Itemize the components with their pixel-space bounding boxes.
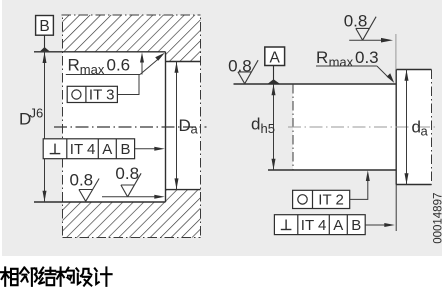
dimension Da arrow up bbox=[175, 62, 179, 73]
frame circularity IT3 bbox=[67, 86, 117, 102]
frame circularity IT2 bbox=[293, 190, 350, 208]
svg-text:IT 4: IT 4 bbox=[70, 141, 96, 158]
svg-text:a: a bbox=[191, 122, 199, 137]
shoulder face extension up (grey) bbox=[395, 34, 397, 70]
svg-text:0.6: 0.6 bbox=[107, 56, 131, 75]
housing outline break line bottom bbox=[63, 237, 201, 239]
svg-text:B: B bbox=[120, 141, 130, 158]
Rmax 0.6 underline bbox=[66, 74, 140, 76]
dimension D arrow down bbox=[43, 191, 47, 202]
housing bottom hatch bbox=[63, 190, 201, 238]
title 相邻结构设计 (drawn strokes) bbox=[1, 267, 112, 285]
right centerline bbox=[288, 126, 437, 128]
datum B stem bbox=[44, 35, 46, 48]
shaft seat bottom line bbox=[268, 169, 396, 171]
svg-text:0.8: 0.8 bbox=[115, 164, 139, 183]
char 设 bbox=[76, 268, 91, 285]
svg-text:D: D bbox=[179, 116, 191, 135]
svg-text:A: A bbox=[333, 217, 343, 234]
perpendicularity symbol bbox=[50, 153, 61, 155]
svg-text:IT 3: IT 3 bbox=[89, 87, 115, 104]
char 计 bbox=[95, 267, 112, 285]
dimension D arrow up bbox=[43, 52, 47, 63]
housing shoulder bottom surface bbox=[166, 189, 201, 191]
frame IT3 leader bbox=[117, 75, 139, 95]
dimension da line bbox=[406, 70, 408, 185]
housing body white area bbox=[63, 15, 201, 238]
svg-text:B: B bbox=[39, 18, 49, 35]
svg-text:max: max bbox=[329, 54, 354, 69]
svg-text:R: R bbox=[316, 48, 328, 67]
dimension d h5 line bbox=[273, 84, 275, 170]
svg-text:a: a bbox=[421, 124, 429, 139]
shaft shoulder top surface bbox=[396, 69, 431, 71]
perpendicularity symbol bbox=[281, 229, 292, 231]
frame IT4 right leader arrow bbox=[365, 224, 386, 226]
shaft seat white area bbox=[293, 84, 432, 170]
svg-text:A: A bbox=[102, 141, 112, 158]
housing outline break line top bbox=[62, 14, 201, 16]
shaft break line left bbox=[292, 84, 294, 170]
shaft break line right bbox=[431, 70, 433, 185]
svg-text:d: d bbox=[251, 115, 260, 134]
dimension Da line bbox=[176, 62, 178, 190]
Rmax 0.6 vertical arrow to bore surface bbox=[141, 58, 143, 75]
dimension D line bbox=[44, 52, 46, 202]
shaft shoulder white area bbox=[396, 70, 431, 185]
bore bottom surface bbox=[34, 201, 166, 203]
housing outline break line left bbox=[62, 15, 64, 238]
svg-text:0.8: 0.8 bbox=[70, 171, 94, 190]
Rmax 0.3 underline bbox=[316, 65, 377, 67]
char 相 bbox=[1, 267, 10, 285]
svg-text:00014897: 00014897 bbox=[433, 193, 444, 244]
dimension Da arrow down bbox=[175, 178, 179, 189]
char 邻 bbox=[20, 268, 29, 282]
svg-text:J6: J6 bbox=[30, 106, 44, 121]
datum A stem bbox=[273, 65, 275, 80]
datum B box bbox=[36, 16, 54, 36]
frame perpendicularity IT4 A B (left) bbox=[43, 139, 134, 159]
shaft seat surface bbox=[234, 83, 397, 85]
shoulder face extension down bbox=[395, 185, 397, 232]
datum B triangle bbox=[40, 47, 49, 51]
svg-text:h5: h5 bbox=[261, 121, 275, 136]
shaft shoulder bottom surface bbox=[396, 184, 431, 186]
frame perpendicularity IT4 A B (right) bbox=[274, 215, 365, 235]
char 结 bbox=[39, 268, 44, 284]
svg-text:IT 4: IT 4 bbox=[301, 217, 327, 234]
datum A triangle bbox=[268, 79, 280, 83]
char 构 bbox=[57, 267, 65, 285]
svg-text:A: A bbox=[270, 49, 281, 66]
left centerline bbox=[54, 126, 207, 128]
housing top hatch bbox=[63, 15, 201, 62]
svg-text:B: B bbox=[351, 217, 361, 234]
svg-text:0.8: 0.8 bbox=[344, 12, 368, 31]
bore top surface bbox=[34, 51, 166, 53]
bore shoulder step face bbox=[165, 52, 167, 202]
housing outline break line right bbox=[200, 15, 202, 238]
shaft shoulder face bbox=[395, 70, 397, 185]
frame IT2 leader bbox=[350, 176, 368, 199]
svg-text:R: R bbox=[68, 56, 80, 75]
svg-text:IT 2: IT 2 bbox=[318, 192, 344, 209]
Rmax 0.6 leader to corner bbox=[140, 59, 158, 74]
frame IT4 leader arrow (left) bbox=[135, 148, 156, 150]
Rmax 0.3 leader to corner bbox=[377, 66, 388, 77]
svg-text:0.3: 0.3 bbox=[355, 48, 379, 67]
datum A box bbox=[265, 47, 285, 66]
housing shoulder top surface bbox=[166, 61, 201, 63]
